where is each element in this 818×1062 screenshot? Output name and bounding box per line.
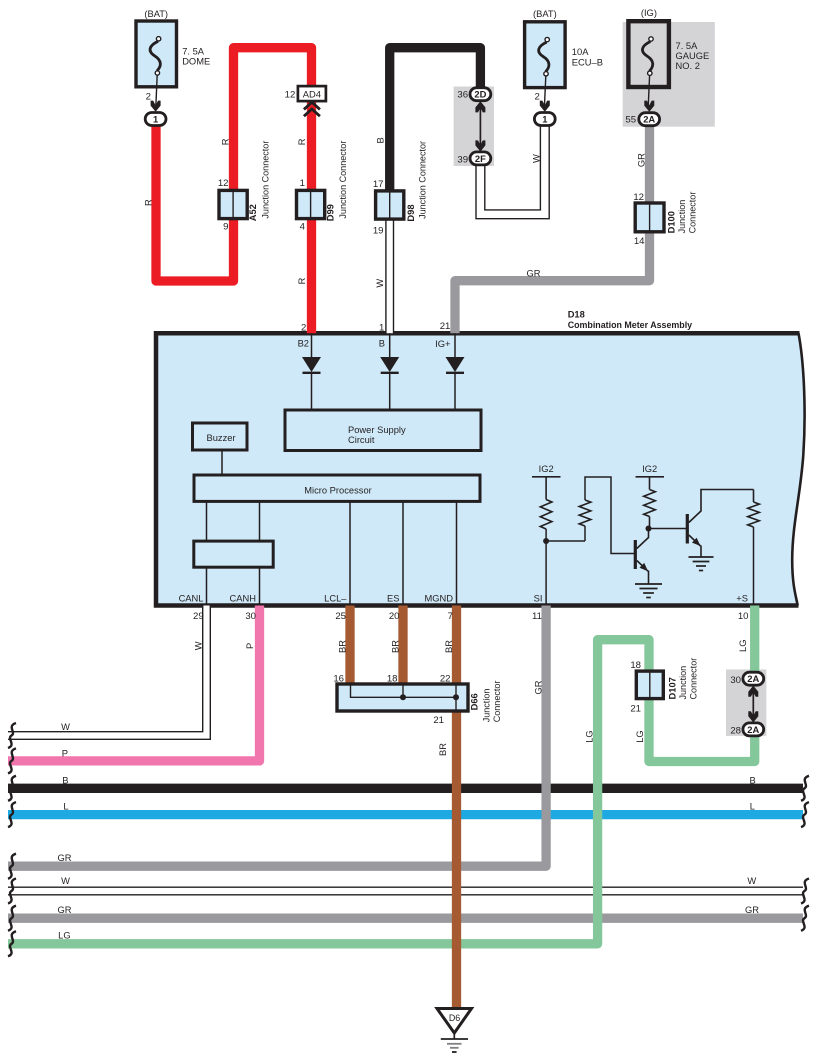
- svg-text:2: 2: [146, 92, 151, 103]
- shade behind GAUGE fuse: [623, 22, 715, 127]
- svg-text:+S: +S: [736, 594, 748, 604]
- svg-text:MGND: MGND: [424, 594, 453, 604]
- svg-text:12: 12: [285, 89, 296, 100]
- junction connector D100: [635, 203, 664, 232]
- svg-text:2F: 2F: [475, 153, 486, 164]
- svg-text:LG: LG: [738, 640, 748, 652]
- svg-text:LG: LG: [585, 730, 595, 742]
- svg-text:GR: GR: [745, 905, 759, 915]
- resistor R1 on SI: [540, 500, 552, 530]
- wire W from D98 to meter pin 1: [385, 217, 394, 333]
- svg-text:1: 1: [542, 113, 547, 124]
- resistor R2: [579, 500, 591, 526]
- svg-text:LCL–: LCL–: [324, 594, 347, 604]
- connector oval 2D: [470, 88, 491, 101]
- svg-text:19: 19: [373, 225, 384, 236]
- wire B from connector 2D up-over to D98: [390, 48, 481, 216]
- svg-text:AD4: AD4: [303, 89, 321, 100]
- svg-text:2D: 2D: [474, 89, 486, 100]
- junction connector D99: [297, 190, 325, 218]
- svg-text:L: L: [750, 802, 755, 812]
- svg-text:NO. 2: NO. 2: [676, 61, 700, 71]
- svg-text:ES: ES: [387, 594, 399, 604]
- svg-text:CANL: CANL: [179, 594, 204, 604]
- svg-text:7. 5A: 7. 5A: [182, 46, 205, 56]
- svg-text:IG+: IG+: [435, 339, 450, 349]
- shield chevrons below AD4: [304, 102, 320, 116]
- resistor R4 on +S: [748, 502, 760, 527]
- transistor Q2 emitter: [689, 535, 701, 546]
- svg-text:Buzzer: Buzzer: [207, 433, 236, 443]
- connector AD4: [298, 86, 326, 101]
- svg-text:39: 39: [457, 154, 468, 165]
- svg-text:GR: GR: [526, 269, 540, 279]
- wire B bus: [8, 784, 803, 793]
- svg-text:B2: B2: [298, 339, 309, 349]
- connector oval 1 below DOME fuse: [145, 113, 166, 126]
- svg-text:BR: BR: [444, 640, 454, 653]
- shade behind 2A/2A shield connector: [726, 669, 766, 736]
- double arrow between 2A ovals: [748, 686, 758, 723]
- svg-text:25: 25: [335, 611, 346, 622]
- svg-text:Connector: Connector: [689, 658, 699, 700]
- connector oval 1 below ECU-B fuse: [534, 113, 555, 126]
- svg-text:18: 18: [630, 660, 641, 671]
- svg-text:B: B: [379, 339, 385, 349]
- svg-text:D107: D107: [668, 677, 678, 699]
- svg-text:Power Supply: Power Supply: [348, 425, 406, 435]
- diode at B: [380, 357, 399, 373]
- svg-text:ECU–B: ECU–B: [572, 57, 603, 67]
- svg-text:21: 21: [630, 704, 641, 715]
- break squiggle left W bus: [8, 723, 16, 748]
- wire R1 to SI pin: [545, 529, 547, 606]
- wire W bus lower: [8, 887, 803, 896]
- IG2 rail 2 stem: [649, 477, 651, 490]
- svg-text:CANH: CANH: [230, 594, 256, 604]
- svg-text:4: 4: [300, 222, 306, 233]
- svg-text:11: 11: [532, 611, 542, 622]
- svg-text:SI: SI: [534, 594, 543, 604]
- svg-text:36: 36: [457, 90, 468, 101]
- svg-text:Junction: Junction: [678, 666, 688, 700]
- wire P CANH bus to left edge: [8, 606, 260, 761]
- wire node to R2: [546, 540, 585, 542]
- svg-text:P: P: [62, 748, 68, 758]
- svg-text:28: 28: [730, 726, 741, 737]
- svg-text:B: B: [376, 137, 386, 143]
- svg-text:LG: LG: [58, 931, 70, 941]
- break squiggle left B bus: [8, 776, 16, 801]
- break squiggle left LG bus: [8, 931, 16, 956]
- svg-text:W: W: [194, 641, 204, 650]
- svg-text:30: 30: [245, 611, 256, 622]
- IG2 rail 1: [532, 476, 561, 478]
- wire BR from D66 21 down to ground D6: [452, 709, 461, 1009]
- svg-text:10A: 10A: [572, 47, 589, 57]
- IG2 rail 1 stem: [545, 477, 547, 500]
- wire GR from meter pin 11 SI down-left to edge: [8, 606, 546, 867]
- svg-text:D6: D6: [449, 1013, 460, 1023]
- svg-text:12: 12: [218, 178, 229, 189]
- svg-text:GR: GR: [637, 153, 647, 167]
- svg-text:IG2: IG2: [539, 464, 554, 474]
- wire L bus: [8, 810, 803, 819]
- svg-text:Junction: Junction: [482, 689, 492, 723]
- svg-text:L: L: [63, 802, 68, 812]
- svg-text:10: 10: [738, 611, 749, 622]
- transistor Q1 base bar: [634, 540, 637, 569]
- meter internal wiring: [207, 333, 457, 605]
- break squiggle left P bus: [8, 748, 16, 773]
- break squiggle right GR bus: [801, 906, 809, 931]
- svg-text:W: W: [61, 876, 70, 886]
- svg-text:W: W: [375, 279, 385, 288]
- connector oval 2A lower: [743, 723, 764, 736]
- svg-text:2A: 2A: [747, 724, 759, 735]
- svg-text:B: B: [62, 775, 68, 785]
- wire LG from shield 2A down-left-up to D107: [649, 699, 755, 762]
- ground D6 triangle: [437, 1009, 472, 1040]
- svg-text:W: W: [532, 154, 542, 163]
- svg-text:2A: 2A: [643, 114, 655, 125]
- svg-text:7. 5A: 7. 5A: [676, 41, 699, 51]
- fuse 7.5A GAUGE NO.2: [628, 21, 669, 107]
- svg-text:Junction: Junction: [677, 200, 687, 234]
- svg-text:GR: GR: [57, 853, 71, 863]
- svg-text:Junction Connector: Junction Connector: [418, 141, 428, 219]
- svg-text:D18: D18: [568, 309, 585, 319]
- svg-text:W: W: [747, 876, 756, 886]
- wire R3 to node: [649, 517, 651, 529]
- svg-text:R: R: [297, 277, 307, 284]
- junction connector D107: [636, 671, 663, 699]
- node SI junction: [543, 538, 549, 544]
- connector oval 2A upper: [743, 672, 764, 685]
- ground D6 bars: [441, 1039, 468, 1052]
- svg-text:Junction Connector: Junction Connector: [261, 141, 271, 219]
- break squiggle left GR bus: [8, 906, 16, 931]
- svg-text:9: 9: [223, 222, 228, 233]
- svg-text:BR: BR: [438, 743, 448, 756]
- fuse 10A ECU-B: [525, 22, 566, 108]
- micro processor box: [194, 475, 480, 501]
- shade behind 2D/2F shield connector: [454, 87, 494, 167]
- svg-text:BR: BR: [338, 640, 348, 653]
- svg-text:2: 2: [534, 92, 539, 103]
- break squiggle left L bus: [8, 802, 16, 827]
- svg-text:GAUGE: GAUGE: [676, 51, 710, 61]
- break squiggle left GR bus: [8, 854, 16, 879]
- svg-text:(BAT): (BAT): [144, 9, 168, 19]
- wire W CANL bus to left edge: [8, 606, 207, 736]
- svg-text:D98: D98: [406, 204, 416, 221]
- resistor R4 top stem: [753, 490, 755, 503]
- svg-text:1: 1: [379, 323, 384, 334]
- svg-text:IG2: IG2: [642, 464, 657, 474]
- transistor Q2 base bar: [686, 514, 689, 544]
- wire R2 bottom stem: [584, 526, 586, 541]
- svg-text:BR: BR: [391, 640, 401, 653]
- svg-text:D66: D66: [470, 693, 480, 710]
- diode at IG+: [446, 357, 465, 373]
- svg-text:29: 29: [193, 611, 204, 622]
- transistor Q1 collector: [637, 529, 649, 549]
- double arrow between 2D and 2F: [475, 101, 485, 151]
- wire node to Q2 base: [649, 528, 687, 530]
- break squiggle right W bus: [801, 879, 809, 904]
- diode at B2: [302, 357, 321, 373]
- svg-text:Circuit: Circuit: [348, 435, 375, 445]
- svg-text:(IG): (IG): [641, 8, 657, 18]
- svg-text:21: 21: [440, 321, 451, 332]
- svg-text:2A: 2A: [747, 673, 759, 684]
- svg-text:17: 17: [373, 179, 384, 190]
- svg-text:P: P: [245, 643, 255, 649]
- svg-text:Micro Processor: Micro Processor: [304, 485, 372, 495]
- svg-text:14: 14: [634, 236, 645, 247]
- svg-text:1: 1: [153, 113, 158, 124]
- svg-text:B: B: [749, 775, 755, 785]
- ground in meter at Q1: [635, 584, 662, 598]
- svg-text:D99: D99: [326, 204, 336, 221]
- svg-text:D100: D100: [667, 211, 677, 233]
- svg-text:55: 55: [625, 115, 636, 126]
- svg-text:R: R: [144, 199, 154, 206]
- svg-text:Connector: Connector: [492, 681, 502, 723]
- svg-text:Junction Connector: Junction Connector: [338, 141, 348, 219]
- svg-text:GR: GR: [57, 905, 71, 915]
- node D66 pin18: [400, 694, 406, 700]
- connector oval 2F: [470, 152, 491, 165]
- junction connector A52: [219, 190, 247, 218]
- node D66 pin22: [453, 694, 459, 700]
- svg-text:(BAT): (BAT): [533, 9, 557, 19]
- arrow from GAUGE fuse: [644, 101, 654, 112]
- wire Q2 emitter down: [700, 546, 702, 557]
- break squiggle right L bus: [801, 802, 809, 827]
- ground in meter at Q2: [689, 557, 714, 571]
- svg-text:Connector: Connector: [688, 192, 698, 234]
- break squiggle right B bus: [801, 776, 809, 801]
- wire Q1 emitter down: [648, 571, 650, 585]
- svg-text:1: 1: [300, 178, 305, 189]
- svg-text:DOME: DOME: [182, 57, 210, 67]
- wire R2 top to T1 base: [585, 477, 634, 554]
- buzzer box: [193, 423, 248, 450]
- svg-text:Combination Meter Assembly: Combination Meter Assembly: [568, 320, 692, 330]
- svg-text:A52: A52: [248, 204, 258, 221]
- combination meter assembly D18 body: [156, 333, 805, 605]
- svg-text:R: R: [221, 138, 231, 145]
- wire GR bus lower: [8, 914, 803, 923]
- wire W from ECU-B fuse 1 down and U-turn up to connector 2F: [480, 124, 544, 214]
- IG2 rail 2: [636, 476, 665, 478]
- connector oval 2A top: [639, 113, 660, 126]
- wire BR meter pin 7 to D66 22: [452, 606, 461, 687]
- svg-text:R: R: [297, 138, 307, 145]
- transistor Q2 collector: [689, 490, 754, 523]
- svg-text:LG: LG: [635, 730, 645, 742]
- node Q1 collector: [646, 526, 652, 532]
- svg-text:20: 20: [389, 611, 400, 622]
- svg-text:2: 2: [301, 323, 306, 334]
- svg-text:GR: GR: [534, 680, 544, 694]
- wire GR from GAUGE fuse 2A via D100 to meter pin 21 IG+: [455, 124, 650, 333]
- svg-text:30: 30: [730, 675, 741, 686]
- wire R4 to +S pin: [753, 527, 755, 606]
- wire LG from D107 up-left and down to bottom edge: [8, 640, 649, 944]
- fuse 7.5A DOME: [136, 21, 177, 107]
- svg-text:21: 21: [433, 715, 444, 726]
- break squiggle left W bus: [8, 879, 16, 904]
- junction connector D98: [376, 191, 404, 219]
- CAN transceiver box: [194, 541, 273, 567]
- arrow from ECU-B fuse pin 2: [540, 101, 550, 112]
- svg-text:7: 7: [448, 611, 453, 622]
- wire BR meter pin 25 to D66 16: [345, 606, 354, 687]
- wire BR meter pin 20 to D66 18: [398, 606, 407, 687]
- svg-text:W: W: [61, 722, 70, 732]
- junction connector D66: [337, 684, 468, 711]
- power supply circuit box: [285, 410, 481, 451]
- transistor Q1 emitter: [637, 561, 648, 572]
- resistor R3: [644, 490, 656, 517]
- arrow from DOME fuse pin 2: [151, 101, 161, 112]
- wire LG from meter pin 10 +S to shield 2A: [750, 606, 759, 673]
- wire R from DOME fuse via A52 up-over to AD4/D99 down to meter pin 2: [156, 48, 312, 334]
